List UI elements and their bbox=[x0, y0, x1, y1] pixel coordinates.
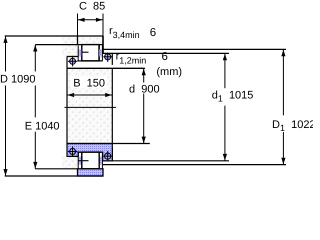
dimension D line lower bbox=[5, 86, 7, 177]
cage strip right (bottom) borders bbox=[98, 152, 100, 169]
dimension d1 line segments bbox=[224, 53, 226, 88]
cage strip right (bottom) fill bbox=[99, 157, 103, 165]
cage strip left (bottom) fill bbox=[78, 157, 82, 165]
outer ring top face / D extension line bbox=[5, 35, 103, 37]
outer ring bore line / E extension (bottom) bbox=[35, 168, 77, 170]
oil hole left (bottom) circle bbox=[70, 149, 76, 155]
oil hole right (bottom) circle bbox=[105, 153, 111, 159]
dimension d line segments bbox=[143, 68, 145, 82]
dimension D arrows bbox=[3, 36, 7, 43]
dimension D1 line segments bbox=[282, 49, 284, 115]
D1 surface line (bottom) bbox=[103, 164, 286, 166]
oil hole right (top) crosshair bbox=[103, 56, 112, 58]
cage strip right (top) fill bbox=[99, 49, 103, 56]
svg-text:C 85: C 85 bbox=[79, 1, 105, 13]
inner ring top face left part bbox=[67, 56, 78, 58]
shaft d surface line (top) bbox=[67, 67, 145, 69]
housing hatch above outer ring bbox=[62, 36, 103, 45]
roller (top section) bbox=[82, 45, 99, 61]
roller axis stub (bottom) bbox=[78, 160, 88, 162]
D1 surface line (top) bbox=[103, 48, 286, 50]
outer ring bottom face / D extension line (bottom) bbox=[5, 175, 103, 177]
label B 150 background bbox=[71, 77, 108, 89]
outer ring left face bbox=[77, 36, 79, 45]
inner ring left face / B extension bbox=[66, 57, 68, 144]
svg-text:(mm): (mm) bbox=[156, 66, 182, 78]
svg-text:6: 6 bbox=[162, 51, 168, 63]
outer ring bore line / E extension bbox=[35, 44, 103, 46]
roller (bottom section) bbox=[82, 152, 99, 169]
inner ring top face right part / d1 surface bbox=[103, 52, 229, 54]
roller axis stub (top) bbox=[78, 51, 88, 53]
cage strip left borders bbox=[77, 46, 79, 61]
dimension C arrows bbox=[78, 18, 85, 22]
d1 surface line (bottom) bbox=[103, 160, 229, 162]
svg-text:6: 6 bbox=[150, 27, 156, 39]
housing hatch left of outer ring bbox=[62, 45, 78, 57]
outer ring right face bbox=[102, 36, 104, 53]
dimension d arrows bbox=[142, 69, 146, 76]
dimension D1 arrows bbox=[281, 50, 285, 57]
oil hole left (top) circle bbox=[70, 58, 76, 64]
dimension d1 arrows bbox=[223, 54, 227, 61]
shaft d surface line (bottom) bbox=[67, 143, 150, 145]
cage strip left (top) fill bbox=[78, 49, 82, 56]
roller zone top line (bottom section) bbox=[77, 151, 102, 153]
dimension C line bbox=[78, 19, 104, 21]
outer ring (bottom) blue section bbox=[78, 169, 104, 176]
svg-text:d 900: d 900 bbox=[129, 84, 160, 96]
svg-text:E 1040: E 1040 bbox=[25, 120, 60, 132]
dimension C extension lines bbox=[77, 14, 79, 37]
shaft hatch between ring sections bbox=[67, 68, 112, 143]
inner ring right face / B extension bbox=[111, 53, 113, 65]
roller zone bottom line (top section) bbox=[77, 60, 102, 62]
dimension B line bbox=[67, 94, 112, 96]
dimension E arrows bbox=[33, 45, 37, 52]
cage strip right borders bbox=[98, 46, 100, 61]
cage strip left (bottom) borders bbox=[77, 152, 79, 169]
inner ring (bottom) blue section bbox=[67, 144, 112, 161]
svg-text:D1 1022: D1 1022 bbox=[272, 119, 313, 133]
dimension B arrows bbox=[68, 93, 75, 97]
bearing centre line bbox=[65, 106, 117, 108]
dimension D line upper bbox=[5, 36, 7, 72]
housing hatch left of bottom outer ring bbox=[62, 156, 78, 168]
svg-text:D 1090: D 1090 bbox=[0, 74, 35, 86]
svg-text:B 150: B 150 bbox=[73, 78, 105, 90]
white page background bbox=[0, 0, 313, 178]
oil hole left (bottom) crosshair bbox=[68, 151, 77, 153]
oil hole right (top) circle bbox=[105, 54, 111, 60]
oil hole left (top) crosshair bbox=[68, 60, 77, 62]
oil hole right (bottom) crosshair bbox=[103, 155, 112, 157]
dimension E line segments bbox=[34, 45, 36, 72]
